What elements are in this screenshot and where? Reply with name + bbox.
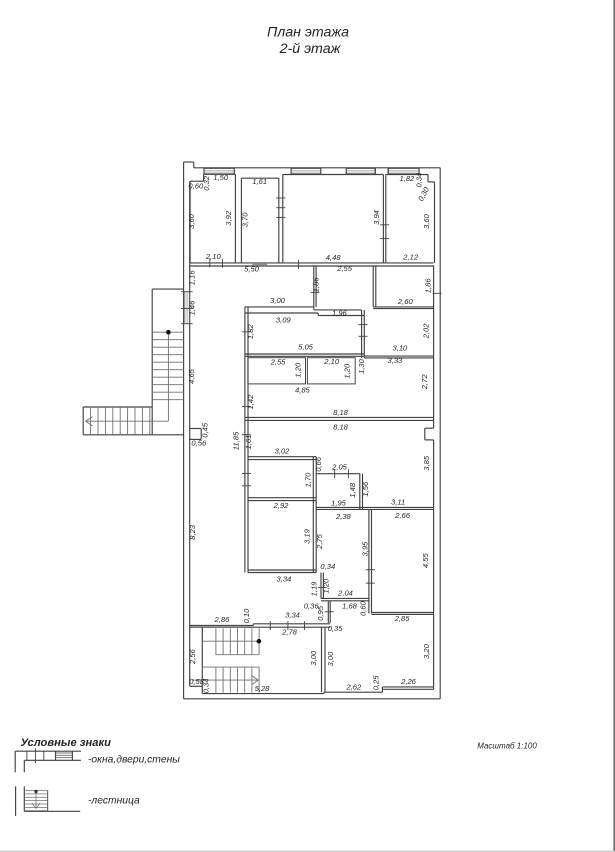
wall 3,34 [190, 624, 331, 627]
window W1 top wall [204, 168, 234, 175]
right wall notch [425, 428, 434, 440]
svg-text:2,92: 2,92 [273, 501, 290, 510]
room 2,60 bottom wall [373, 307, 433, 309]
svg-text:2,02: 2,02 [422, 323, 431, 340]
bottom right room wall [324, 687, 434, 692]
svg-text:1,70: 1,70 [304, 472, 313, 488]
stair upper flight [203, 628, 262, 654]
svg-text:2,38: 2,38 [335, 512, 352, 521]
pillar between W3 W4 [375, 168, 388, 175]
svg-text:1,50: 1,50 [213, 173, 229, 182]
svg-text:3,60: 3,60 [187, 213, 196, 229]
svg-text:3,09: 3,09 [276, 316, 292, 325]
room2 walls [241, 178, 278, 263]
svg-text:8,18: 8,18 [333, 408, 349, 417]
svg-text:2,78: 2,78 [281, 627, 298, 636]
svg-text:3,33: 3,33 [388, 356, 404, 365]
wall 3,95 [369, 509, 372, 613]
svg-text:1,30: 1,30 [357, 358, 366, 374]
svg-text:4,65: 4,65 [187, 368, 196, 384]
exterior stair [83, 289, 183, 435]
room A 3,02 walls [248, 457, 316, 501]
outer wall top-left step [184, 162, 194, 168]
bottom edge scan line [0, 851, 615, 852]
door threshold bar [252, 263, 267, 266]
svg-text:Масштаб 1:100: Масштаб 1:100 [477, 742, 537, 751]
svg-text:1,20: 1,20 [322, 578, 331, 594]
scale note [477, 742, 537, 751]
svg-text:3,11: 3,11 [391, 498, 405, 507]
svg-text:1,82: 1,82 [400, 174, 416, 183]
window W3 top wall [346, 168, 375, 175]
svg-text:0,60: 0,60 [358, 600, 367, 616]
room3 walls [283, 175, 384, 263]
svg-text:1,42: 1,42 [246, 394, 255, 410]
wall 1,19 [321, 573, 323, 599]
svg-text:2,72: 2,72 [420, 374, 429, 391]
closet box 2,10 [307, 358, 355, 384]
wall B corridor [373, 265, 376, 307]
outer wall top [194, 167, 440, 169]
room4 walls [386, 175, 435, 263]
svg-text:2,05: 2,05 [331, 462, 348, 471]
svg-text:Условные знаки: Условные знаки [21, 737, 112, 749]
svg-text:3,85: 3,85 [422, 455, 431, 471]
svg-text:5,28: 5,28 [255, 684, 271, 693]
svg-text:2,55: 2,55 [336, 264, 353, 273]
title: План этажа [267, 25, 349, 41]
inner top wall line [204, 173, 428, 175]
svg-text:1,96: 1,96 [332, 308, 348, 317]
svg-text:5,05: 5,05 [298, 343, 314, 352]
inner left wall [189, 181, 191, 686]
svg-text:1,61: 1,61 [252, 177, 267, 186]
svg-text:3,19: 3,19 [303, 528, 312, 544]
svg-text:2,66: 2,66 [394, 511, 411, 520]
svg-text:1,20: 1,20 [343, 363, 352, 379]
corridor wall 3,00 [322, 627, 326, 692]
svg-text:0,56: 0,56 [191, 438, 207, 447]
legend stair symbol [16, 786, 81, 816]
svg-text:План этажа: План этажа [267, 25, 349, 41]
svg-text:3,10: 3,10 [393, 343, 409, 352]
svg-text:0,45: 0,45 [201, 422, 210, 438]
svg-text:1,48: 1,48 [348, 482, 357, 498]
wall 3,11 [363, 507, 434, 509]
room 2,66 bottom wall [372, 613, 434, 615]
svg-text:0,34: 0,34 [202, 679, 211, 694]
title: 2-й этаж [279, 41, 342, 57]
svg-text:3,34: 3,34 [277, 575, 292, 584]
svg-text:1,95: 1,95 [331, 498, 347, 507]
svg-text:2,75: 2,75 [315, 533, 324, 550]
legend label okna [88, 755, 180, 766]
svg-text:4,48: 4,48 [326, 253, 342, 262]
wall 2,04 [321, 598, 369, 600]
outer wall right [439, 168, 441, 699]
inner right wall [433, 265, 435, 689]
legend label lestnica [88, 796, 140, 807]
dimension ticks [210, 198, 442, 630]
room 3,10 bottom wall [364, 356, 433, 358]
wall A corridor [314, 265, 316, 307]
corridor top wall [190, 263, 434, 266]
stairwell left wall [190, 627, 203, 693]
svg-text:-окна,двери,стены: -окна,двери,стены [88, 755, 180, 766]
svg-text:-лестница: -лестница [88, 796, 140, 807]
svg-text:8,18: 8,18 [333, 422, 349, 431]
room 2,05 walls [316, 474, 362, 510]
wall 0,95 [328, 601, 330, 623]
closet box 2,55 [248, 358, 306, 384]
svg-text:2,26: 2,26 [400, 677, 417, 686]
svg-text:3,00: 3,00 [309, 650, 318, 666]
stair lower flight with arrow [192, 667, 259, 693]
legend wall-window symbol [15, 748, 81, 772]
svg-text:1,86: 1,86 [311, 277, 320, 293]
middle band top wall [245, 354, 364, 356]
svg-text:0,95: 0,95 [316, 605, 325, 621]
svg-text:4,55: 4,55 [421, 553, 430, 569]
center wall 11,85 [245, 307, 248, 573]
window W4 top wall [388, 168, 419, 175]
svg-text:0,10: 0,10 [242, 608, 251, 624]
outer wall bottom [184, 698, 441, 700]
corridor bottom wall [245, 307, 364, 316]
svg-text:2,86: 2,86 [214, 615, 231, 624]
svg-text:0,32: 0,32 [202, 175, 211, 191]
inner bottom wall [202, 692, 324, 693]
legend title [21, 737, 112, 749]
svg-text:3,94: 3,94 [372, 210, 381, 225]
svg-text:5,50: 5,50 [244, 265, 260, 274]
svg-text:2,10: 2,10 [205, 252, 222, 261]
svg-text:1,16: 1,16 [187, 270, 196, 286]
svg-text:1,68: 1,68 [342, 602, 358, 611]
svg-text:2,10: 2,10 [323, 357, 340, 366]
svg-text:3,34: 3,34 [285, 610, 300, 619]
svg-text:0,34: 0,34 [320, 562, 335, 571]
wall 8,18 [245, 417, 434, 420]
outer wall left [183, 162, 185, 699]
svg-text:1,61: 1,61 [244, 435, 253, 450]
svg-text:1,46: 1,46 [187, 300, 196, 316]
right edge scan line [613, 0, 615, 852]
svg-text:0,35: 0,35 [328, 624, 344, 633]
dimension labels [187, 173, 432, 694]
svg-text:2,12: 2,12 [402, 253, 419, 262]
room1 walls [190, 174, 235, 263]
svg-text:3,95: 3,95 [361, 541, 370, 557]
svg-text:1,86: 1,86 [423, 278, 432, 294]
stair landing line [202, 666, 259, 668]
svg-text:0,66: 0,66 [314, 456, 323, 472]
svg-text:1,56: 1,56 [361, 481, 370, 497]
svg-text:2,55: 2,55 [270, 357, 287, 366]
svg-text:11,85: 11,85 [232, 431, 241, 450]
window W2 top wall [291, 168, 321, 175]
svg-text:2,60: 2,60 [397, 297, 414, 306]
svg-text:1,19: 1,19 [309, 581, 318, 597]
svg-text:2-й этаж: 2-й этаж [279, 41, 342, 57]
left wall notch [189, 429, 201, 440]
svg-text:4,85: 4,85 [295, 385, 311, 394]
svg-text:1,20: 1,20 [294, 362, 303, 378]
svg-text:0,25: 0,25 [371, 675, 380, 691]
svg-text:2,04: 2,04 [337, 589, 353, 598]
room B 2,92 walls [248, 501, 316, 573]
svg-text:2,62: 2,62 [345, 682, 362, 691]
svg-text:2,56: 2,56 [188, 648, 197, 665]
svg-text:3,02: 3,02 [275, 447, 291, 456]
wall C [362, 310, 365, 358]
svg-text:8,23: 8,23 [188, 524, 197, 540]
svg-text:3,60: 3,60 [422, 213, 431, 229]
window left wall [181, 292, 192, 324]
svg-text:3,20: 3,20 [422, 643, 431, 659]
svg-text:2,85: 2,85 [394, 614, 411, 623]
svg-text:1,82: 1,82 [246, 324, 255, 340]
svg-text:3,00: 3,00 [326, 651, 335, 667]
svg-text:3,92: 3,92 [224, 210, 233, 226]
svg-text:3,70: 3,70 [241, 212, 250, 228]
svg-text:3,00: 3,00 [270, 296, 286, 305]
